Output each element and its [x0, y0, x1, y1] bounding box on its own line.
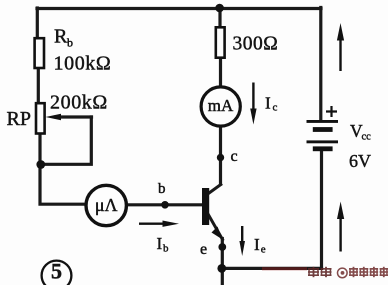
- svg-text:c: c: [273, 102, 278, 114]
- svg-text:300Ω: 300Ω: [233, 34, 279, 55]
- svg-text:I: I: [265, 94, 271, 113]
- svg-text:b: b: [158, 181, 166, 197]
- svg-text:200kΩ: 200kΩ: [50, 92, 108, 114]
- svg-text:mΑ: mΑ: [208, 96, 234, 115]
- svg-text:R: R: [54, 26, 68, 48]
- svg-text:μΛ: μΛ: [95, 195, 118, 215]
- svg-text:I: I: [254, 235, 260, 254]
- svg-text:e: e: [200, 241, 207, 258]
- svg-text:b: b: [163, 243, 169, 255]
- svg-text:e: e: [261, 244, 266, 256]
- svg-text:cc: cc: [362, 132, 372, 143]
- svg-text:6V: 6V: [349, 151, 371, 171]
- svg-text:c: c: [231, 148, 238, 165]
- svg-text:I: I: [157, 234, 163, 253]
- svg-text:5: 5: [51, 259, 62, 284]
- svg-text:100kΩ: 100kΩ: [54, 53, 112, 75]
- svg-text:RP: RP: [7, 108, 31, 130]
- svg-text:b: b: [67, 36, 73, 50]
